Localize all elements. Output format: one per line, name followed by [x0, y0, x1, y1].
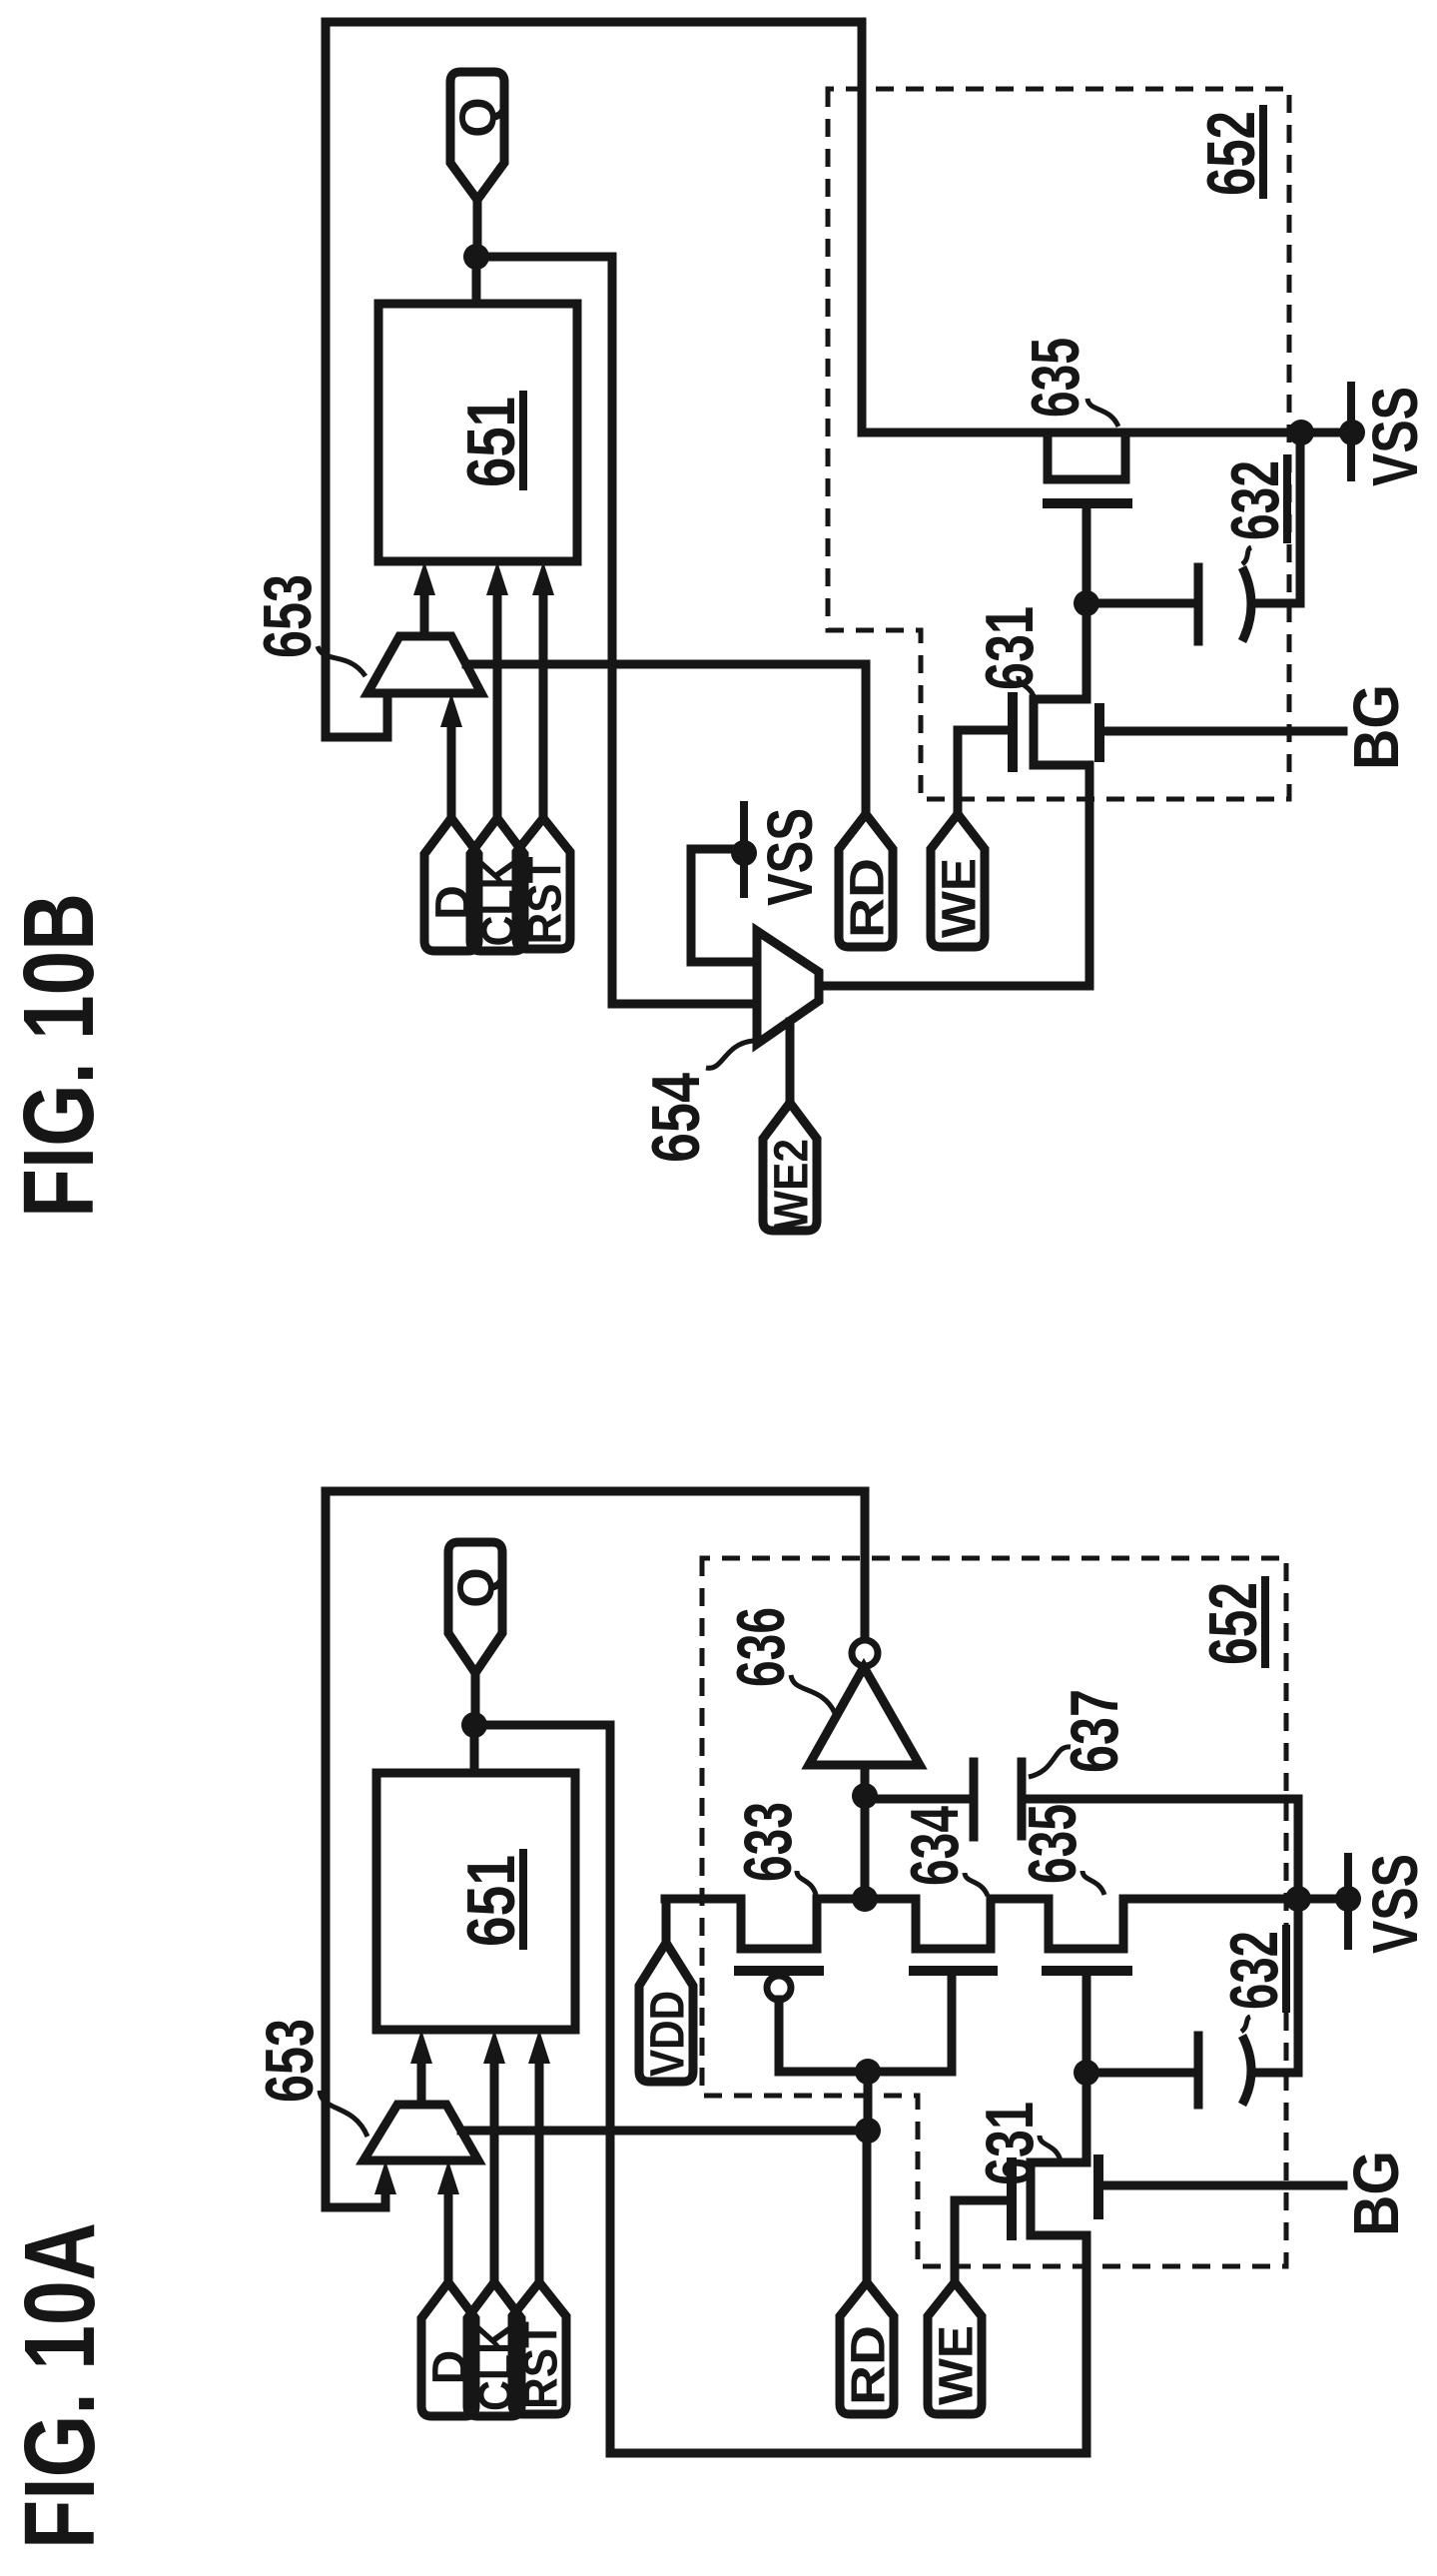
terminal D [421, 2282, 475, 2416]
wire VSS to mux 654 input [691, 849, 757, 962]
junction dot on rail at inverter branch [852, 1886, 878, 1912]
inverter 636 [809, 1667, 920, 1765]
wire mux 653 output [420, 595, 429, 636]
svg-text:653: 653 [252, 2019, 328, 2103]
junction dot VSS stub [731, 840, 757, 866]
junction dot Q node [461, 1712, 487, 1738]
junction dot VSS terminal [1339, 420, 1365, 445]
VSS terminal bar [1347, 386, 1355, 477]
wire gate 633 bubble to gates net [779, 1975, 952, 2072]
svg-text:RD: RD [842, 2325, 895, 2405]
junction dot RD node [855, 2118, 881, 2144]
wire 651 to Q node [470, 1725, 479, 1773]
svg-text:651: 651 [453, 397, 529, 487]
VSS terminal bar at mux 654 [740, 805, 748, 894]
transistor 634 gate bar [914, 1966, 993, 1976]
leader 632 [1242, 547, 1251, 564]
svg-text:631: 631 [972, 2102, 1048, 2185]
wire Q node to terminal [473, 200, 482, 257]
svg-text:632: 632 [1216, 1931, 1292, 2010]
svg-text:637: 637 [1057, 1689, 1132, 1773]
svg-text:Q: Q [450, 97, 508, 137]
svg-text:631: 631 [972, 606, 1048, 690]
leader 636 [791, 1675, 835, 1713]
wire mux 653 output [417, 2064, 426, 2105]
terminal RD [840, 2282, 894, 2414]
wire VDD to rail [662, 1899, 671, 1943]
arrowhead RST into 651 [528, 2030, 550, 2064]
block 651 [376, 1773, 575, 2030]
svg-text:RST: RST [518, 857, 571, 945]
leader 633 [797, 1871, 816, 1895]
transistor 633 gate bubble [767, 1976, 791, 2000]
svg-text:652: 652 [1193, 111, 1269, 196]
wire feedback Q node to 631 source [474, 1725, 1086, 2453]
svg-text:BG: BG [1340, 684, 1412, 770]
svg-text:Q: Q [448, 1567, 506, 1607]
capacitor 632 curved plate [1242, 567, 1251, 641]
terminal WE [931, 814, 985, 947]
terminal WE [928, 2282, 982, 2414]
arrowhead mux 653 output into 651 [410, 2030, 432, 2064]
svg-text:VSS: VSS [1359, 387, 1431, 486]
wire capacitor 637 to VSS line [1026, 1795, 1298, 1804]
arrowhead mux 653 output into 651 [413, 561, 435, 595]
leader 637 [1029, 1747, 1071, 1777]
svg-text:RD: RD [841, 858, 894, 938]
wire 651 to Q node [472, 257, 481, 304]
terminal RST [516, 818, 570, 949]
wire CLK to 651 [493, 595, 502, 818]
svg-text:BG: BG [1340, 2150, 1412, 2236]
leader 653 [318, 646, 365, 676]
wire gates net to RD node [864, 2072, 873, 2131]
svg-text:636: 636 [723, 1607, 799, 1687]
wire 631 drain and 635 gate lead [1082, 511, 1091, 699]
leader 635 [1082, 1871, 1104, 1895]
leader 631 [1019, 676, 1035, 700]
junction dot gates net [855, 2059, 881, 2085]
wire 631 back gate to BG [1104, 727, 1343, 736]
capacitor 637 plate upper [970, 1762, 979, 1837]
svg-text:654: 654 [638, 1073, 714, 1163]
terminal RST [512, 2282, 566, 2414]
svg-text:WE2: WE2 [765, 1139, 818, 1231]
svg-text:RST: RST [514, 2321, 567, 2409]
wire inverter node to capacitor 637 [865, 1795, 970, 1804]
wire feedback Q node to mux 654 input [476, 257, 757, 1004]
svg-text:FIG. 10A: FIG. 10A [4, 2222, 116, 2549]
svg-text:VSS: VSS [754, 808, 826, 906]
terminal VDD [639, 1943, 693, 2082]
transistor 631 gate bar [1008, 697, 1018, 767]
wire Q node to terminal [471, 1673, 480, 1725]
terminal RD [839, 814, 893, 947]
capacitor 632 plate [1194, 567, 1203, 641]
svg-text:VSS: VSS [1359, 1854, 1431, 1954]
wire RST to 651 [539, 595, 548, 818]
transistor 635 gate bar [1048, 498, 1127, 508]
svg-text:653: 653 [250, 574, 326, 658]
mux 653 [363, 2105, 478, 2160]
terminal CLK [470, 818, 524, 951]
block 651 [378, 304, 577, 561]
mux 653 [367, 636, 481, 693]
wire RD line to mux 653 [461, 2127, 867, 2136]
wire CLK to 651 [490, 2064, 499, 2282]
arrowhead RST into 651 [532, 561, 554, 595]
junction dot capacitor VSS node [1288, 420, 1314, 445]
capacitor 632 curved plate [1242, 2036, 1251, 2105]
leader 632 [1241, 2017, 1250, 2032]
wire feedback loop top (mux 653 select to inverter 636 input) [326, 1491, 865, 2207]
wire rail with channel jogs of transistors 633 634 635 [665, 1899, 1348, 1949]
wire capacitor 632 to VSS node [1251, 432, 1300, 603]
svg-text:WE: WE [933, 858, 986, 938]
svg-text:633: 633 [730, 1802, 806, 1882]
leader 631 [1040, 2136, 1061, 2160]
wire RD riser [862, 664, 871, 814]
wire 631 back gate to BG [1103, 2181, 1343, 2190]
wire RD line to mux 653 [466, 660, 866, 669]
leader 634 [965, 1873, 988, 1896]
transistor 631 back gate bar [1093, 2159, 1103, 2214]
svg-text:634: 634 [897, 1806, 973, 1886]
junction dot storage node [1074, 2060, 1099, 2086]
mux 654 [757, 931, 819, 1044]
junction dot inverter output node [852, 1783, 878, 1809]
arrowhead select input into mux 653 [374, 2160, 396, 2194]
transistor 631 channel and jogs [1031, 2162, 1086, 2235]
wire feedback loop top (mux 653 select over top to 635) [326, 22, 862, 737]
junction dot VSS node [1335, 1886, 1361, 1912]
terminal CLK [467, 2282, 521, 2416]
dashed box 652 [828, 89, 1289, 799]
wire WE to 631 gate [955, 2200, 1007, 2279]
terminal Q [448, 1542, 502, 1673]
transistor 631 gate bar [1007, 2162, 1017, 2235]
transistor 635 channel and stubs [1048, 432, 1125, 479]
junction dot Q node [463, 244, 489, 270]
svg-text:FIG. 10B: FIG. 10B [3, 893, 115, 1218]
wire D to mux 653 [447, 727, 456, 818]
arrowhead D into mux 653 [437, 2160, 459, 2194]
svg-text:651: 651 [453, 1855, 529, 1947]
capacitor 632 plate [1194, 2036, 1203, 2105]
wire RST to 651 [535, 2064, 544, 2282]
svg-text:VDD: VDD [641, 1991, 694, 2077]
wire D to mux 653 [444, 2194, 453, 2282]
transistor 633 gate bar [739, 1966, 819, 1976]
wire WE to 631 gate [958, 730, 1008, 814]
transistor 631 channel and jogs [1034, 699, 1089, 765]
wire inverter 636 output to node [861, 1765, 870, 1796]
wire 635 gate lead [1082, 503, 1091, 511]
junction dot storage node [1074, 590, 1099, 616]
wire inverter output node to rail [861, 1796, 870, 1899]
dashed box 652 [702, 1558, 1286, 2266]
capacitor 637 plate lower [1018, 1762, 1027, 1836]
wire rail 635 to VSS [862, 429, 1352, 437]
terminal Q [450, 72, 504, 200]
arrowhead CLK into 651 [483, 2030, 505, 2064]
svg-text:652: 652 [1195, 1582, 1271, 1665]
leader 653 [320, 2091, 367, 2137]
leader 654 [706, 1041, 753, 1068]
terminal D [424, 818, 478, 951]
arrowhead CLK into 651 [486, 561, 508, 595]
svg-text:WE: WE [930, 2325, 983, 2405]
FIG. 10A group [4, 1491, 1431, 2549]
wire storage node to capacitor 632 [1090, 599, 1194, 608]
arrowhead D into mux 653 [440, 693, 462, 727]
wire mux 654 output to 631 source [819, 765, 1089, 986]
wire storage node to capacitor 632 [1090, 2069, 1194, 2078]
wire RD riser [863, 2131, 872, 2279]
wire WE2 to mux 654 select [786, 1022, 795, 1103]
terminal WE2 [763, 1103, 817, 1231]
FIG. 10B group [3, 22, 1431, 1231]
wire capacitor 632 to VSS line [1251, 1799, 1298, 2073]
junction dot rail VSS crossing [1285, 1886, 1311, 1912]
leader 635 [1087, 399, 1118, 427]
transistor 631 back gate bar [1094, 708, 1104, 757]
VSS terminal bar [1344, 1857, 1352, 1946]
wire 631 drain and 635 gate lead [1082, 1975, 1091, 2162]
transistor 635 gate bar [1047, 1966, 1127, 1976]
svg-text:632: 632 [1217, 460, 1293, 540]
svg-text:635: 635 [1018, 338, 1093, 418]
